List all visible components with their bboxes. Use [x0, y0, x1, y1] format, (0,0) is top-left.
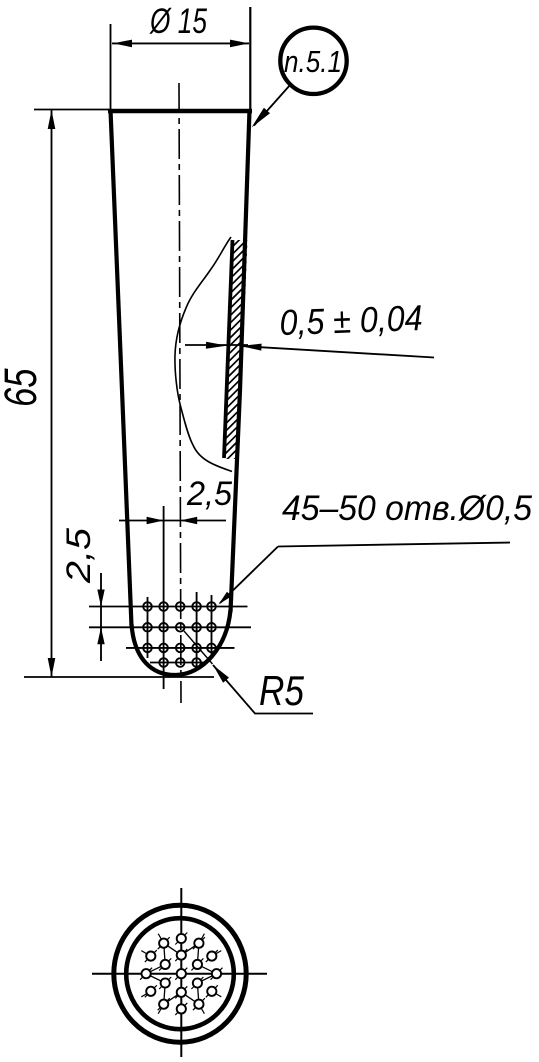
callout leader arrowhead — [252, 108, 271, 128]
svg-text:65: 65 — [0, 368, 46, 407]
leader 45-50: arrowhead — [219, 592, 232, 605]
tube right edge — [231, 110, 250, 612]
dimension 65: bottom extension line — [24, 676, 214, 678]
leader 45-50: slanted line — [220, 547, 278, 604]
hole column line 2 — [163, 506, 165, 689]
callout circle n.5.1 — [280, 28, 346, 94]
tube bottom arc R5 — [132, 610, 231, 675]
dimension 65: top extension line — [34, 109, 109, 111]
bottom view web (zigzag construction lines) — [146, 943, 216, 1004]
hole column tick 1 — [147, 597, 149, 658]
hole row line 2 — [89, 626, 251, 628]
wall dim: left line — [185, 344, 248, 346]
hole row line 1 — [89, 606, 248, 608]
hole column tick 4 — [196, 592, 198, 667]
bottom view radial ticks — [135, 928, 227, 1020]
leader R5: arrowhead — [213, 665, 229, 683]
dimension 65: dimension line — [51, 110, 53, 677]
svg-text:2,5: 2,5 — [60, 528, 98, 584]
wall dim: left arrowhead — [206, 342, 227, 349]
callout leader line — [254, 85, 291, 126]
svg-text:0,5 ± 0,04: 0,5 ± 0,04 — [279, 297, 423, 343]
bottom view outer circle — [114, 905, 246, 1042]
break line (freehand wavy) — [175, 237, 232, 472]
leader 45-50: shelf line — [278, 543, 510, 547]
dimension D15: right arrowhead — [230, 40, 249, 48]
vertical centerline (dash-dot) — [179, 83, 181, 703]
dim 2,5 top: dimension line — [119, 520, 226, 522]
bottom view hole slashes — [140, 933, 222, 1015]
dim 2,5 top: right arrowhead — [180, 517, 197, 524]
bottom view horizontal centerline — [92, 973, 267, 975]
svg-text:45–50 отв.Ø0,5: 45–50 отв.Ø0,5 — [282, 489, 533, 528]
inner wall line of section — [224, 240, 233, 458]
wall dim: right line — [241, 346, 435, 358]
svg-text:2,5: 2,5 — [186, 475, 232, 513]
dimension D15: right extension line — [249, 7, 251, 110]
tube left edge — [111, 110, 132, 626]
dimension 65: top arrowhead — [48, 110, 56, 129]
dimension D15: left extension line — [110, 24, 112, 113]
holes grid circles (45-50 holes d0.5) — [143, 602, 216, 667]
dimension D15: left arrowhead — [113, 40, 132, 48]
bottom view inner circle — [126, 918, 234, 1029]
dim 2,5 left: lower arrowhead — [97, 627, 104, 644]
hole column tick 5 — [211, 595, 213, 655]
dim 2,5 left: dimension line — [100, 573, 102, 661]
bottom view holes — [142, 934, 222, 1014]
svg-text:R5: R5 — [259, 667, 305, 714]
wall dim: right arrowhead — [241, 344, 262, 351]
dimension 65: bottom arrowhead — [48, 658, 56, 677]
hole row line 4 — [150, 662, 207, 664]
tube top edge — [108, 109, 252, 114]
svg-text:Ø 15: Ø 15 — [149, 2, 207, 41]
leader R5: inner segment — [184, 631, 213, 664]
bottom view vertical centerline — [180, 888, 182, 1057]
dimension D15: dimension line — [112, 42, 249, 44]
leader R5: slanted line — [213, 665, 313, 714]
dim 2,5 left: upper arrowhead — [97, 590, 104, 607]
svg-text:n.5.1: n.5.1 — [284, 44, 342, 79]
hole row line 3 — [126, 647, 235, 649]
dim 2,5 top: left arrowhead — [147, 517, 164, 524]
